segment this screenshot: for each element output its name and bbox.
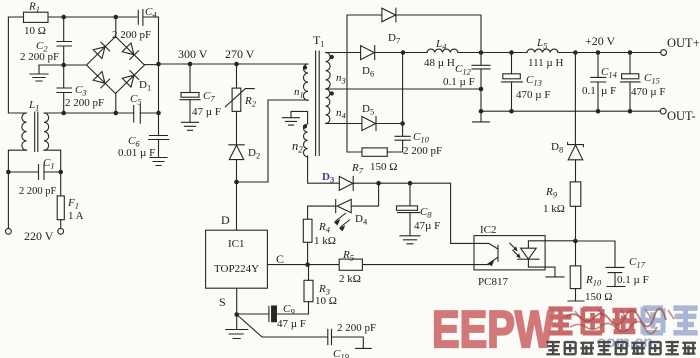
- common-mode choke L1 left winding: [22, 113, 27, 150]
- terminal OUT-: [660, 108, 666, 114]
- diode D5: [362, 117, 403, 131]
- svg-text:+20 V: +20 V: [585, 34, 616, 48]
- mid return rail: [326, 88, 481, 90]
- svg-text:111 µ H: 111 µ H: [528, 57, 564, 69]
- bridge rectifier D1 diamond: [87, 37, 145, 94]
- ground under C8: [400, 236, 420, 244]
- wire main rail 300V/270V: [159, 63, 309, 65]
- opto LED: [518, 241, 564, 277]
- resistor R7: [362, 148, 387, 156]
- wire n2 bottom to D3: [308, 156, 340, 183]
- svg-text:D: D: [221, 213, 230, 227]
- wire S pin: [236, 288, 238, 314]
- wire R3 top to C node: [308, 265, 310, 281]
- wire L1 right bottom: [44, 150, 61, 196]
- svg-text:0.1 µ F: 0.1 µ F: [617, 274, 649, 286]
- wire R9 to R10: [575, 206, 577, 266]
- svg-text:300 V: 300 V: [178, 47, 208, 61]
- watermark red char 1: [548, 309, 572, 333]
- svg-text:10 Ω: 10 Ω: [24, 25, 46, 37]
- capacitor C8 electrolytic: [409, 183, 411, 206]
- wire 270V column: [236, 64, 238, 145]
- svg-text:1 A: 1 A: [68, 210, 84, 222]
- svg-text:47µ F: 47µ F: [414, 220, 440, 232]
- ground under S: [226, 315, 248, 339]
- wire D3 row to IC2: [353, 183, 474, 243]
- wire top rail left: [8, 16, 136, 18]
- wire bridge bottom lead: [115, 94, 117, 114]
- wire bridge left vertex to C2 node: [64, 64, 87, 66]
- transformer primary n1: [303, 64, 308, 100]
- wire fuse to terminal: [60, 220, 62, 229]
- bridge diode upper-right: [122, 43, 138, 59]
- OUT- rail: [481, 110, 660, 112]
- wire left vertical to L1: [8, 17, 26, 113]
- svg-text:µ F: µ F: [601, 85, 616, 97]
- watermark script stroke 2: [570, 321, 657, 333]
- opto phototransistor: [474, 243, 498, 264]
- common-mode choke L1 right winding: [44, 113, 49, 150]
- capacitor C14: [591, 53, 606, 112]
- terminal 220V right: [58, 228, 64, 234]
- transformer bias winding n2: [304, 124, 308, 157]
- resistor R9: [570, 182, 581, 206]
- watermark blue char 1: [643, 307, 663, 334]
- svg-text:TOP224Y: TOP224Y: [214, 263, 259, 275]
- zener D8: [568, 142, 584, 159]
- svg-text:C: C: [276, 252, 284, 266]
- svg-text:PC817: PC817: [478, 276, 508, 288]
- secondary +20V rail: [326, 52, 661, 54]
- svg-text:2 kΩ: 2 kΩ: [339, 273, 361, 285]
- resistor R1: [24, 12, 49, 22]
- winding phase dots: [303, 65, 307, 69]
- wire D8 column: [574, 53, 576, 182]
- svg-text:0.1 µ F: 0.1 µ F: [443, 76, 475, 88]
- bridge diode upper-left: [93, 42, 109, 58]
- diode D3: [339, 176, 353, 190]
- fuse F1: [57, 196, 64, 220]
- wire L1 left bottom: [8, 150, 26, 172]
- bridge diode lower-right: [122, 71, 138, 87]
- watermark script stroke 1: [566, 309, 666, 327]
- ground at n2: [283, 118, 300, 125]
- svg-text:150 Ω: 150 Ω: [370, 161, 397, 173]
- capacitor C1: [8, 165, 60, 180]
- svg-text:10 Ω: 10 Ω: [315, 295, 337, 307]
- svg-text:47 µ F: 47 µ F: [192, 106, 221, 118]
- inductor L4: [427, 49, 458, 52]
- ground under C7: [182, 122, 199, 130]
- wire R4 leads: [308, 206, 336, 265]
- svg-text:1 kΩ: 1 kΩ: [543, 203, 565, 215]
- resistor R4: [303, 219, 312, 242]
- diode D4: [336, 183, 379, 213]
- wire right column x158: [158, 17, 160, 136]
- capacitor C12: [472, 53, 490, 112]
- resistor R10: [570, 266, 581, 289]
- wire IC2 to R9 junction: [545, 240, 575, 242]
- wire S to C9: [237, 313, 269, 315]
- svg-text:270 V: 270 V: [225, 47, 255, 61]
- L1 core: [35, 112, 38, 152]
- IC2 PC817 box: [474, 236, 545, 270]
- svg-text:OUT-: OUT-: [667, 109, 696, 123]
- svg-text:48 µ H: 48 µ H: [424, 57, 455, 69]
- transformer secondary n4: [326, 89, 330, 123]
- R4 pointer arrows: [335, 213, 350, 228]
- wire left to terminal: [7, 172, 9, 228]
- watermark gray row: [546, 341, 696, 355]
- inductor L5: [527, 49, 558, 52]
- svg-text:EEPW: EEPW: [432, 301, 555, 358]
- wire y113 rail: [44, 112, 159, 114]
- resistor R5: [339, 259, 362, 270]
- IC1 TOP224Y box: [206, 230, 268, 288]
- terminal OUT+: [661, 50, 667, 56]
- capacitor C5: [134, 104, 141, 123]
- transformer secondary n3: [326, 53, 331, 89]
- watermark red char 3: [612, 310, 636, 334]
- svg-text:2 200 pF: 2 200 pF: [65, 97, 104, 109]
- diode D5 row: [326, 123, 362, 125]
- wire R7 row: [347, 151, 403, 153]
- svg-text:2 200 pF: 2 200 pF: [403, 145, 442, 157]
- wire D pin: [236, 182, 238, 230]
- svg-text:150 Ω: 150 Ω: [585, 291, 612, 303]
- ground under C6: [150, 158, 167, 166]
- svg-text:S: S: [219, 295, 226, 309]
- capacitor C6: [149, 136, 169, 158]
- svg-text:470 µ F: 470 µ F: [631, 86, 665, 98]
- varistor R2: [232, 88, 241, 111]
- diode D6: [361, 46, 375, 60]
- chassis bar under x481: [473, 111, 490, 122]
- svg-text:2 200 pF: 2 200 pF: [19, 186, 57, 197]
- svg-text:IC1: IC1: [228, 238, 245, 250]
- capacitor C10: [395, 124, 410, 153]
- svg-text:220 V: 220 V: [24, 229, 54, 243]
- diode D7: [382, 8, 396, 22]
- ground under C2 node: [30, 65, 64, 81]
- capacitor C7 electrolytic: [181, 93, 199, 98]
- svg-text:2 200 pF: 2 200 pF: [337, 322, 376, 334]
- wire R10 bottom bar: [568, 289, 584, 301]
- zener D2: [229, 145, 244, 182]
- svg-text:IC2: IC2: [480, 224, 497, 236]
- capacitor C15 electrolytic: [629, 53, 631, 74]
- top clamp rail with D7: [347, 15, 481, 152]
- wire L1 right top to rail: [44, 112, 64, 114]
- opto light arrows: [510, 243, 520, 257]
- wire D5 cathode up to D6 junction: [402, 53, 404, 124]
- capacitor C13 electrolytic: [511, 53, 513, 74]
- bridge diode lower-left: [93, 71, 109, 87]
- wire n2 top to ground: [291, 111, 308, 124]
- capacitor C19: [237, 315, 372, 349]
- wire bridge top lead: [115, 17, 117, 37]
- svg-text:0.01 µ F: 0.01 µ F: [118, 147, 155, 159]
- svg-text:2 200 pF: 2 200 pF: [112, 29, 151, 41]
- svg-text:47 µ F: 47 µ F: [277, 318, 306, 330]
- terminal 220V left: [5, 228, 11, 234]
- capacitor C4: [138, 10, 158, 26]
- wire D2 to primary bottom: [237, 100, 309, 182]
- watermark blue char 2: [673, 308, 697, 333]
- svg-text:OUT+: OUT+: [667, 36, 700, 50]
- wire bridge right vertex to main rail: [145, 64, 159, 66]
- transformer T1 core: [316, 51, 320, 156]
- resistor R3: [304, 280, 313, 301]
- svg-text:470 µ F: 470 µ F: [516, 89, 550, 101]
- capacitor C9 polarized: [268, 307, 270, 322]
- wire C9 to R3: [276, 302, 308, 314]
- capacitor C2: [57, 17, 72, 65]
- capacitor C17: [576, 241, 626, 287]
- svg-text:1 kΩ: 1 kΩ: [314, 235, 336, 247]
- svg-text:2 200 pF: 2 200 pF: [20, 51, 59, 63]
- watermark red char 2: [583, 308, 602, 335]
- svg-text:0.1: 0.1: [582, 85, 596, 97]
- capacitor C3: [57, 65, 72, 113]
- wire C pin line: [267, 264, 474, 266]
